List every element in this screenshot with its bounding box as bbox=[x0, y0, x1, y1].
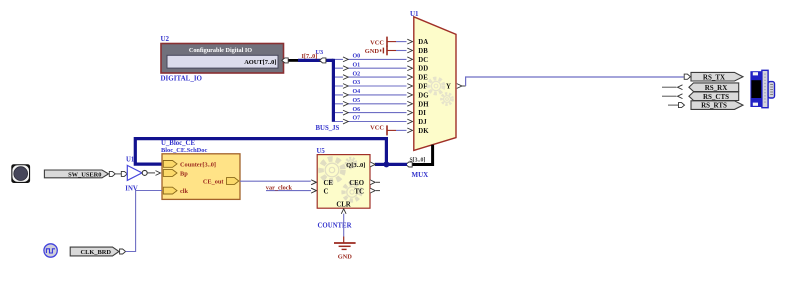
power VCC (to DK) bbox=[370, 125, 396, 136]
inverter U4 bbox=[127, 165, 147, 180]
svg-text:DB: DB bbox=[418, 48, 428, 55]
svg-text:CLR: CLR bbox=[336, 202, 350, 209]
op-amp/mux U1 trapezoid bbox=[414, 17, 456, 151]
svg-text:VCC: VCC bbox=[370, 125, 384, 132]
wire tap O0 bbox=[335, 54, 413, 62]
wire Y output to RS_TX bbox=[466, 77, 684, 86]
svg-text:DD: DD bbox=[418, 66, 428, 73]
bus joiner BUS_JS vertical bus bbox=[332, 59, 335, 122]
svg-text:Counter[3..0]: Counter[3..0] bbox=[180, 161, 216, 168]
svg-text:COUNTER: COUNTER bbox=[318, 222, 352, 229]
svg-text:GND: GND bbox=[338, 254, 353, 261]
wire tap O6 bbox=[335, 107, 413, 115]
svg-text:O4: O4 bbox=[353, 89, 361, 95]
net label var_clock bbox=[266, 184, 293, 191]
svg-text:U5: U5 bbox=[317, 148, 326, 155]
pin C arrow bbox=[311, 188, 316, 193]
svg-text:DA: DA bbox=[418, 39, 428, 46]
pin Q[3..0] arrow bbox=[370, 162, 375, 167]
pin AOUT[7..0] of U2 bbox=[282, 58, 300, 63]
svg-text:AOUT[7..0]: AOUT[7..0] bbox=[244, 59, 276, 66]
wire var_clock to counter C bbox=[266, 188, 316, 193]
wire tap O5 bbox=[335, 98, 413, 106]
svg-text:U1: U1 bbox=[126, 156, 135, 163]
wire tap O2 bbox=[335, 71, 413, 79]
counter U5 bbox=[317, 148, 371, 209]
svg-text:Configurable Digital IO: Configurable Digital IO bbox=[189, 47, 252, 54]
svg-text:DI: DI bbox=[418, 110, 426, 117]
svg-text:var_clock: var_clock bbox=[266, 184, 293, 191]
svg-text:RS_CTS: RS_CTS bbox=[703, 93, 729, 101]
bus S[3..0] into mux bottom bbox=[406, 145, 433, 167]
label MUX bbox=[412, 171, 429, 179]
pin stub RS_RX bbox=[662, 85, 683, 90]
svg-text:DJ: DJ bbox=[418, 119, 427, 126]
port CLK_BRD bbox=[70, 247, 119, 256]
svg-text:DK: DK bbox=[418, 128, 429, 135]
svg-text:DH: DH bbox=[418, 101, 429, 108]
svg-text:DF: DF bbox=[418, 84, 427, 91]
sheet entry CE_out bbox=[203, 178, 239, 186]
label COUNTER bbox=[318, 222, 352, 229]
svg-text:RS_TX: RS_TX bbox=[703, 73, 725, 81]
sheet symbol U_Bloc_CE bbox=[161, 140, 240, 199]
svg-text:CLK_BRD: CLK_BRD bbox=[80, 249, 111, 256]
power VCC (to DA) bbox=[370, 37, 396, 47]
component U2 Configurable Digital IO bbox=[161, 35, 284, 73]
svg-text:U_Bloc_CE: U_Bloc_CE bbox=[161, 140, 195, 147]
label BUS_JS bbox=[316, 125, 340, 132]
label DIGITAL_IO bbox=[161, 75, 203, 83]
svg-text:Bloc_CE.SchDoc: Bloc_CE.SchDoc bbox=[161, 147, 207, 154]
svg-text:O7: O7 bbox=[353, 116, 361, 122]
svg-text:TC: TC bbox=[355, 188, 365, 195]
pin CEO stub bbox=[370, 180, 380, 185]
svg-text:DC: DC bbox=[418, 57, 428, 64]
port SW_USER0 bbox=[44, 170, 108, 178]
svg-text:SW_USER0: SW_USER0 bbox=[68, 171, 101, 178]
wire VCC to DA bbox=[396, 39, 413, 44]
clock source icon bbox=[44, 244, 57, 257]
pin arrow CLK_BRD bbox=[120, 249, 126, 254]
pin TC stub bbox=[370, 188, 380, 193]
svg-text:CE: CE bbox=[324, 180, 334, 187]
junction bbox=[383, 161, 389, 167]
port RS_RTS bbox=[691, 101, 743, 110]
svg-text:Bp: Bp bbox=[180, 171, 188, 178]
svg-text:O1: O1 bbox=[353, 62, 361, 68]
wire tap O4 bbox=[335, 89, 413, 97]
push button icon bbox=[11, 164, 30, 183]
wire GND to DB bbox=[396, 48, 413, 53]
bus Q[3..0] distribution bbox=[135, 139, 407, 165]
svg-text:O5: O5 bbox=[353, 98, 361, 104]
pin INV output stub bbox=[147, 171, 160, 176]
pin CE arrow bbox=[311, 180, 316, 185]
svg-text:clk: clk bbox=[180, 188, 189, 195]
power GND (to DB) bbox=[365, 46, 396, 56]
pin arrow RS_TX bbox=[684, 74, 690, 79]
svg-text:RS_RTS: RS_RTS bbox=[701, 102, 727, 110]
wire tap O3 bbox=[335, 80, 413, 88]
svg-text:C: C bbox=[324, 188, 329, 195]
svg-text:RS_RX: RS_RX bbox=[705, 84, 728, 92]
net label S[3..0] bbox=[410, 157, 426, 163]
pin CLR arrow bbox=[341, 209, 346, 214]
svg-text:Y: Y bbox=[446, 84, 451, 91]
svg-text:O2: O2 bbox=[353, 71, 361, 77]
svg-text:MUX: MUX bbox=[412, 171, 429, 179]
pin Y of U1 bbox=[457, 84, 466, 89]
bus I[7..0] from U2 to BUS_JS bbox=[298, 58, 333, 63]
svg-text:O6: O6 bbox=[353, 107, 361, 113]
net label I[7..0] bbox=[302, 53, 318, 60]
label INV bbox=[125, 185, 138, 192]
port RS_RX bbox=[689, 83, 739, 92]
wire SW_USER0 to INV bbox=[115, 173, 121, 175]
svg-text:O3: O3 bbox=[353, 80, 361, 86]
svg-text:O0: O0 bbox=[353, 54, 361, 60]
svg-text:BUS_JS: BUS_JS bbox=[316, 125, 340, 132]
wire tap O1 bbox=[335, 62, 413, 70]
wire CLR to GND bbox=[343, 214, 345, 237]
port RS_TX bbox=[691, 72, 743, 81]
pin arrow SW_USER0 bbox=[109, 171, 115, 176]
wire VCC to DK bbox=[396, 128, 413, 133]
sheet entry clk bbox=[163, 187, 188, 195]
svg-text:CEO: CEO bbox=[349, 180, 364, 187]
designator U1 bbox=[410, 10, 419, 18]
svg-text:U3: U3 bbox=[316, 49, 324, 56]
svg-text:DG: DG bbox=[418, 92, 429, 99]
sheet entry Bp bbox=[163, 170, 188, 178]
designator U3 (bus joiner) bbox=[316, 49, 324, 56]
svg-text:DE: DE bbox=[418, 75, 428, 82]
port RS_CTS bbox=[689, 92, 739, 101]
wire tap O7 bbox=[335, 116, 413, 124]
DB9 serial connector icon bbox=[750, 70, 774, 107]
svg-text:VCC: VCC bbox=[370, 39, 384, 46]
ground GND bbox=[334, 237, 356, 261]
svg-text:Q[3..0]: Q[3..0] bbox=[346, 162, 365, 169]
wire CLK_BRD to clk entry bbox=[126, 191, 162, 252]
svg-text:CE_out: CE_out bbox=[203, 178, 225, 185]
svg-text:DIGITAL_IO: DIGITAL_IO bbox=[161, 75, 203, 83]
svg-text:GND: GND bbox=[365, 48, 380, 55]
pin stub RS_CTS bbox=[662, 94, 683, 99]
pin stub RS_RTS bbox=[668, 103, 685, 108]
designator U4 (inverter) bbox=[126, 156, 135, 163]
wire CE_out to counter CE bbox=[240, 180, 316, 185]
svg-text:S[3..0]: S[3..0] bbox=[410, 157, 426, 163]
pin arrow INV input bbox=[121, 171, 127, 176]
sheet entry Counter[3..0] bbox=[163, 161, 216, 169]
svg-text:U2: U2 bbox=[161, 35, 170, 43]
